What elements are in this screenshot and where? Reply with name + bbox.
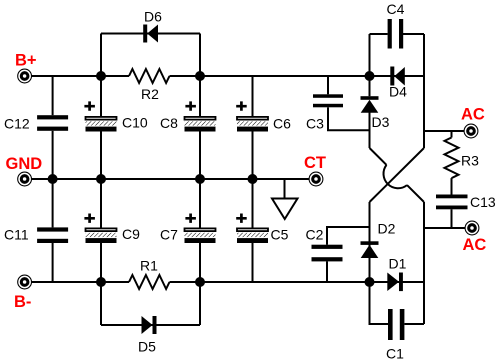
wire B+ rail right: [170, 75, 370, 77]
wire D3 branch vertical: [369, 76, 371, 148]
svg-text:R2: R2: [141, 86, 159, 102]
capacitor C5: [236, 214, 268, 244]
terminal B+: [18, 69, 32, 83]
wire D5 loop left vertical: [100, 282, 102, 325]
svg-text:R3: R3: [461, 153, 479, 169]
diode D2: [361, 241, 379, 258]
wire C13 bottom lead: [451, 209, 453, 228]
terminal AC bottom: [465, 221, 479, 235]
svg-text:C13: C13: [470, 194, 496, 210]
svg-text:D5: D5: [138, 338, 156, 354]
terminal GND: [18, 172, 32, 186]
svg-text:C6: C6: [273, 116, 291, 132]
wire C2 bottom lead: [326, 261, 328, 282]
svg-text:B+: B+: [15, 52, 37, 70]
wire C3 bottom lead to node: [328, 107, 370, 130]
wire R3 to C13: [451, 178, 453, 194]
wire C3 top lead: [327, 76, 329, 94]
wire GND rail: [31, 178, 310, 180]
diode D4: [390, 67, 405, 86]
terminal AC top: [464, 124, 478, 138]
node junction B+ x101: [96, 71, 106, 81]
wire C1 loop right: [405, 323, 425, 325]
capacitor C7: [185, 214, 216, 244]
svg-text:C7: C7: [160, 227, 178, 243]
wire C11 top lead: [52, 179, 54, 227]
wire C2 top lead: [327, 227, 370, 245]
capacitor C11: [37, 227, 68, 243]
wire D6 loop right vertical: [199, 34, 201, 77]
svg-text:GND: GND: [6, 155, 43, 173]
capacitor C10: [84, 101, 116, 131]
svg-text:R1: R1: [140, 258, 158, 274]
node junction B+ x200: [195, 71, 205, 81]
diode D1: [387, 273, 403, 292]
capacitor C12: [37, 115, 68, 131]
svg-text:C5: C5: [271, 227, 289, 243]
wire C11 bottom lead: [52, 243, 54, 282]
wire C12 bottom lead: [52, 131, 54, 179]
wire B- rail right with D1 segment: [170, 281, 425, 283]
wire D6 loop left vertical: [100, 34, 102, 77]
wire R3 top lead: [451, 131, 453, 138]
node junction GND x200: [195, 174, 205, 184]
capacitor C2: [312, 245, 343, 262]
node junction B+ x369: [365, 71, 375, 81]
wire AC top row: [424, 130, 464, 132]
wire ground stub: [284, 179, 286, 199]
wire AC bottom row: [424, 227, 465, 229]
diode D5: [142, 316, 157, 334]
terminal CT: [309, 172, 323, 186]
capacitor C3: [313, 94, 343, 107]
node junction B- x101: [96, 277, 106, 287]
wire C10 leads: [100, 76, 102, 179]
wire C6 leads: [252, 76, 254, 179]
wire D5 loop bottom: [101, 324, 200, 326]
wire C9 leads: [100, 179, 102, 282]
capacitor C9: [84, 214, 116, 244]
wire C7 leads: [199, 179, 201, 282]
svg-text:C11: C11: [4, 227, 29, 243]
svg-text:D4: D4: [389, 84, 407, 100]
wire C4 loop top: [370, 33, 425, 35]
svg-text:C9: C9: [122, 226, 140, 242]
wire crossover hop diagonal: [370, 148, 425, 202]
wire D5 loop right vertical: [199, 282, 201, 325]
wire D6 loop top: [101, 33, 200, 35]
svg-text:D1: D1: [389, 256, 407, 272]
svg-text:AC: AC: [463, 236, 487, 254]
wire B- rail left: [31, 281, 129, 283]
wire crossover straight diagonal: [370, 148, 425, 202]
wire C1 loop left: [370, 282, 389, 324]
svg-text:C8: C8: [160, 115, 178, 131]
svg-text:C10: C10: [122, 115, 148, 131]
svg-text:D2: D2: [378, 221, 396, 237]
resistor R2: [129, 69, 170, 83]
svg-text:AC: AC: [461, 106, 485, 124]
resistor R1: [129, 275, 170, 289]
capacitor C13: [436, 195, 468, 210]
capacitor C6: [236, 101, 268, 131]
wire x369 vertical lower: [369, 202, 371, 282]
wire C4 loop left vertical: [369, 34, 371, 76]
svg-text:B-: B-: [14, 293, 31, 311]
terminal B-: [18, 275, 32, 289]
resistor R3: [445, 138, 459, 179]
diode D6: [143, 25, 158, 43]
ground symbol: [272, 199, 298, 220]
svg-text:CT: CT: [304, 154, 326, 172]
diode D3: [361, 96, 379, 113]
capacitor C1: [388, 309, 404, 340]
svg-text:C3: C3: [306, 116, 324, 132]
wire B+ rail left: [31, 75, 129, 77]
node junction GND x101: [96, 174, 106, 184]
wire crossover hop arc: [384, 165, 407, 188]
svg-text:C4: C4: [387, 1, 405, 17]
wire C12 top lead: [52, 76, 54, 115]
svg-text:C12: C12: [4, 116, 30, 132]
node junction GND x252: [248, 174, 258, 184]
node junction GND x52: [48, 174, 58, 184]
wire C8 leads: [199, 76, 201, 179]
wire x424 vertical top: [423, 34, 425, 148]
wire C5 leads: [252, 179, 254, 282]
node junction B- x200: [195, 277, 205, 287]
svg-text:D3: D3: [372, 114, 390, 130]
wire D4 row: [370, 75, 425, 77]
svg-text:C2: C2: [306, 227, 324, 243]
svg-text:D6: D6: [144, 8, 162, 24]
node junction B- x369: [365, 277, 375, 287]
wire x424 vertical lower: [423, 202, 425, 324]
capacitor C8: [185, 101, 216, 131]
capacitor C4: [388, 19, 404, 49]
svg-text:C1: C1: [386, 346, 404, 362]
